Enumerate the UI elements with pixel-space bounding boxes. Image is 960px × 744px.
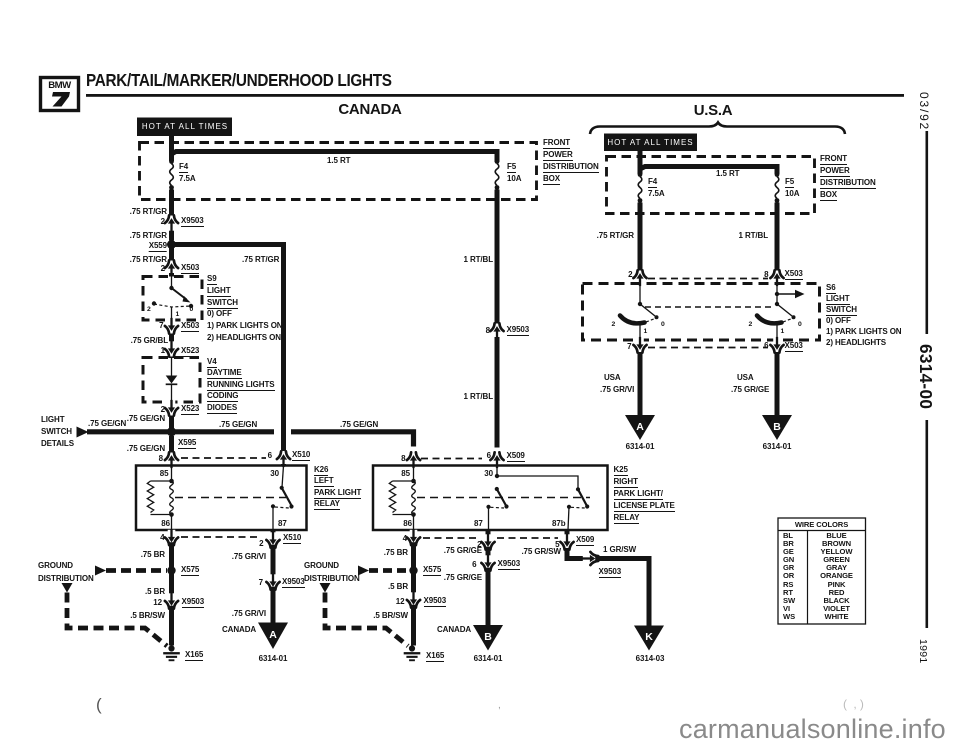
connector 6 X503 (S6 right bottom)	[770, 337, 783, 353]
K26 relay labels	[314, 466, 328, 476]
triangle A (USA)	[625, 415, 655, 440]
node X575 label (mid)	[423, 566, 441, 576]
1.5 RT label (USA)	[716, 170, 739, 178]
HOT AT ALL TIMES box (Canada)	[137, 118, 232, 137]
wire junction down to X595	[169, 436, 174, 453]
wire: USA hot feed down to F4	[638, 151, 643, 174]
K25 switch contact 30-87b	[497, 476, 589, 530]
ground X165 (left)	[163, 645, 180, 661]
S9 position labels	[147, 306, 151, 313]
K25 pin numbers	[401, 470, 410, 478]
connector 6 X9503 (B wire)	[481, 555, 494, 571]
wire label .75 RT/GR	[130, 208, 167, 216]
wire: hot feed down to F4	[169, 135, 174, 161]
ground X165 (right)	[404, 645, 421, 661]
wire label 1 RT/BL	[463, 256, 493, 264]
svg-text:A: A	[636, 421, 644, 433]
svg-text:K: K	[645, 631, 653, 643]
pin 6 / X510	[268, 452, 272, 460]
wire 1 RT/BL below F5	[495, 190, 500, 324]
wire .75 RT/GR (USA left)	[638, 203, 643, 271]
connector 7 X9503	[266, 574, 279, 590]
front power distribution box labels (USA)	[820, 155, 847, 165]
pin 8 / X9503 (RT/BL)	[486, 327, 490, 335]
wire .75 GE/GN horizontal (left of crossing)	[87, 429, 274, 434]
scan artifacts	[96, 696, 102, 713]
light switch details note	[41, 416, 65, 424]
diode symbol	[166, 358, 178, 403]
wire label .75 RT/GR	[130, 232, 167, 240]
S6 position labels left	[612, 321, 616, 328]
K26 pin 2 wire to triangle A	[271, 530, 276, 624]
pin 2 / X503	[161, 265, 165, 273]
connector 2 X510 bottom	[266, 532, 279, 548]
K26 coil	[147, 466, 174, 531]
K26 pins 4 / 2 X510	[160, 534, 164, 542]
front power distribution box (USA, dashed)	[607, 157, 815, 214]
fuse F5 10A	[495, 159, 500, 190]
K25 coil	[389, 466, 416, 531]
connector 1 X523	[165, 341, 178, 358]
wire label .5 BR/SW (mid)	[373, 612, 408, 620]
ground distribution arrow down (left)	[62, 583, 73, 593]
front power distribution box (Canada, dashed)	[140, 143, 537, 200]
dashed ground wire to X575 (mid)	[369, 568, 409, 573]
K25 switch contact 30-87	[486, 466, 508, 531]
relay K25 box	[373, 466, 608, 531]
dashed ground wire down-right to X165 (left)	[67, 593, 167, 647]
S6 light switch labels	[826, 284, 836, 294]
wire label .75 RT/GR (branch)	[242, 256, 279, 264]
connector 7 X503	[165, 318, 178, 343]
K25 pin 4 wire to ground	[411, 530, 416, 646]
S6 top pins 2 / 8 X503	[628, 271, 632, 279]
node X559 label	[149, 242, 167, 252]
connector 2 X503	[165, 260, 178, 276]
pin 12 / X9503 (left)	[153, 599, 162, 607]
node X575 label (left)	[181, 566, 199, 576]
wire .75 GR/GE to triangle B (USA)	[775, 352, 780, 416]
USA wire tags	[604, 374, 621, 382]
wire label 1 RT/BL (lower)	[463, 393, 493, 401]
wire label .75 GE/GN (below)	[127, 445, 165, 453]
S6 bottom pins 7 / 6 X503	[627, 343, 631, 351]
wire: 1.5 RT horizontal to F5	[172, 152, 498, 163]
wire label .75 GR/VI	[232, 553, 266, 561]
U.S.A overbrace	[590, 123, 845, 135]
wire .75 GE/GN horizontal (right of crossing) down to K25 pin 8	[291, 432, 414, 447]
S6 mechanical dashed link	[645, 306, 773, 308]
svg-text:B: B	[484, 631, 492, 643]
connector 12 X9503 (left)	[165, 593, 178, 609]
wire colors legend title	[795, 521, 848, 529]
wire label .75 RT/GR	[130, 256, 167, 264]
dashed connector line X510 top	[181, 457, 266, 459]
dashed connector lines X509 bottom	[423, 537, 558, 539]
title underline	[86, 94, 904, 97]
wire labels (USA)	[597, 232, 634, 240]
wire .75 GR/VI to triangle A (USA)	[638, 352, 643, 416]
S9 light switch labels	[207, 275, 217, 285]
6314-01 under A	[259, 655, 288, 663]
dashed connector line X503 bottom	[648, 347, 768, 349]
wire colors legend box	[778, 518, 866, 624]
connector 7 (S6 left bottom)	[633, 337, 646, 353]
wire label .75 BR (left)	[141, 551, 165, 559]
1.5 RT label (Canada)	[327, 157, 350, 165]
K25 pin 8	[401, 455, 405, 463]
wire label .75 GR/BL	[131, 337, 168, 345]
node X595 label	[178, 439, 196, 449]
dashed ground wire down-right to X165 (mid)	[325, 593, 408, 647]
K25 pin 2 wire to triangle B	[486, 530, 491, 626]
pin 1 / X523	[161, 347, 165, 355]
dashed ground wire to X575 (left)	[106, 568, 167, 573]
light switch S9 box (dashed)	[143, 277, 202, 321]
hot at all times text (USA)	[607, 139, 693, 147]
relay K26 box	[136, 466, 307, 531]
wire label .75 GE/GN (far right)	[340, 421, 378, 429]
sidebar rule upper	[926, 131, 929, 334]
wire label .75 GE/GN (right)	[219, 421, 257, 429]
pin 12 / X9503 (mid)	[396, 598, 405, 606]
K25 internal dashed link	[417, 497, 590, 499]
connector 6 X509	[490, 452, 503, 468]
CANADA tag A	[222, 626, 256, 634]
watermark	[679, 716, 946, 743]
wire label .75 GE/GN (left)	[88, 420, 126, 428]
wire label .75 GR/GE (lower)	[444, 574, 482, 582]
wire branch X559 right and down to X510	[172, 245, 284, 452]
sidebar rule lower	[926, 420, 929, 628]
ground distribution arrow down (mid)	[320, 583, 331, 593]
wire label .75 GR/SW	[521, 548, 561, 556]
wire label 1 GR/SW	[603, 546, 636, 554]
6314-01 under B	[474, 655, 503, 663]
wire label .75 GR/VI (lower)	[232, 610, 266, 618]
triangle B (Canada)	[473, 625, 503, 651]
ground X165 label (mid)	[426, 652, 444, 662]
S6 left switch mechanism	[620, 284, 659, 341]
pin 6 / X9503 (B wire)	[472, 561, 476, 569]
pin 2 / X9503	[161, 218, 165, 226]
node X575 (left)	[167, 566, 175, 574]
S6 position labels right	[749, 321, 753, 328]
K26 switch contact 30-87	[271, 466, 294, 531]
connector 1 X9503 (K wire)	[582, 552, 598, 565]
dashed connector line X503 top	[648, 278, 768, 280]
triangle B (USA)	[762, 415, 792, 440]
BMW 7 logo box	[41, 78, 79, 111]
K26 internal dashed link	[175, 497, 286, 499]
sidebar year 1991	[919, 639, 927, 664]
wire label .75 GE/GN	[127, 415, 165, 423]
connector 5 X509 bottom	[560, 530, 573, 550]
wire: USA 1.5 RT horizontal to F5	[640, 167, 777, 175]
K25 pins 4 / 2 / 5 X509	[403, 535, 407, 543]
U.S.A heading	[694, 107, 733, 115]
connector 8 (K25 pin85)	[407, 452, 420, 468]
wire .75 RT/GR below F4	[169, 190, 174, 216]
K26 pin 8	[159, 455, 163, 463]
light switch S6 box (dashed)	[583, 284, 820, 341]
svg-text:B: B	[773, 421, 781, 433]
wire 1 RT/BL (USA right)	[775, 203, 780, 271]
F4 label (USA)	[648, 178, 657, 188]
connector 4 (below 86)	[165, 529, 178, 545]
connector 2 X523	[165, 400, 178, 428]
K26 pin 4 wire to ground	[169, 530, 174, 646]
wire label .75 BR (mid)	[384, 549, 408, 557]
connector 2 (S6 left top)	[633, 270, 646, 286]
wire .75 GR/SW right and down to triangle K	[567, 548, 649, 627]
S6 right switch mechanism with arrow	[757, 284, 805, 341]
connector 6 X510	[277, 451, 290, 467]
connector 2 X9503	[165, 215, 178, 240]
ground distribution arrow right (left)	[95, 566, 106, 576]
X9503 label (K wire)	[599, 568, 622, 578]
K25 relay labels	[614, 466, 628, 476]
front power distribution box labels (Canada)	[543, 139, 570, 149]
node X575 (right)	[409, 566, 417, 574]
triangle A (Canada)	[258, 623, 288, 650]
wire below S9	[169, 320, 174, 322]
diode box V4 (dashed)	[143, 358, 200, 403]
CANADA heading	[338, 106, 401, 114]
HOT AT ALL TIMES box (USA)	[604, 134, 697, 152]
dashed connector line X509 top	[421, 458, 482, 460]
fuse F4 7.5A	[169, 159, 174, 190]
BMW logo text	[48, 82, 70, 90]
light switch details arrow	[77, 427, 89, 438]
node X559 junction	[167, 240, 176, 249]
fuse F4 7.5A (USA)	[638, 172, 643, 203]
V4 diode labels	[207, 358, 217, 368]
page title	[86, 76, 392, 84]
6314-03 under K	[636, 655, 665, 663]
pin 6 / X509	[487, 452, 491, 460]
triangle K	[634, 626, 664, 651]
wire X559 down to X503	[169, 247, 174, 261]
pin 7 / X9503	[259, 579, 263, 587]
sidebar number 6314-00	[922, 344, 930, 409]
connector 8 X595	[165, 452, 178, 468]
hot at all times text (Canada)	[142, 123, 228, 131]
ground X165 label (left)	[185, 651, 203, 661]
node GE/GN junction	[167, 427, 176, 436]
svg-text:A: A	[269, 629, 277, 641]
ground distribution note (mid)	[304, 562, 339, 570]
S9 switch mechanism	[152, 277, 193, 321]
connector 8 X503 (S6 right top)	[770, 270, 783, 286]
connector 4 (below 86, K25)	[407, 529, 420, 545]
6314-01 under USA A and B	[626, 443, 655, 451]
ground distribution arrow right (mid)	[358, 566, 369, 576]
wire label .75 GR/GE	[444, 547, 482, 555]
wire colors rows	[783, 532, 795, 621]
F5 label (Canada)	[507, 163, 516, 173]
graphics inserted below	[41, 78, 929, 662]
pin 7 / X503	[159, 322, 163, 330]
sidebar date 03/92	[918, 92, 930, 131]
connector 2 X509 bottom	[481, 534, 494, 550]
K26 pin numbers	[160, 470, 169, 478]
pin 2 / X523	[161, 406, 165, 414]
F5 label (USA)	[785, 178, 794, 188]
ground distribution note (left)	[38, 562, 73, 570]
CANADA tag B	[437, 626, 471, 634]
fuse F5 10A (USA)	[775, 172, 780, 203]
text labels inserted below	[0, 0, 960, 1]
wire label .5 BR/SW (left)	[130, 612, 165, 620]
connector 12 X9503 (right)	[407, 592, 420, 608]
connector 8 X9503 (RT/BL)	[490, 323, 503, 447]
wire label .5 BR (mid)	[388, 583, 408, 591]
F4 label (Canada)	[179, 163, 188, 173]
dashed connector line X510 bottom	[181, 536, 258, 538]
wire label .5 BR (left)	[145, 588, 165, 596]
